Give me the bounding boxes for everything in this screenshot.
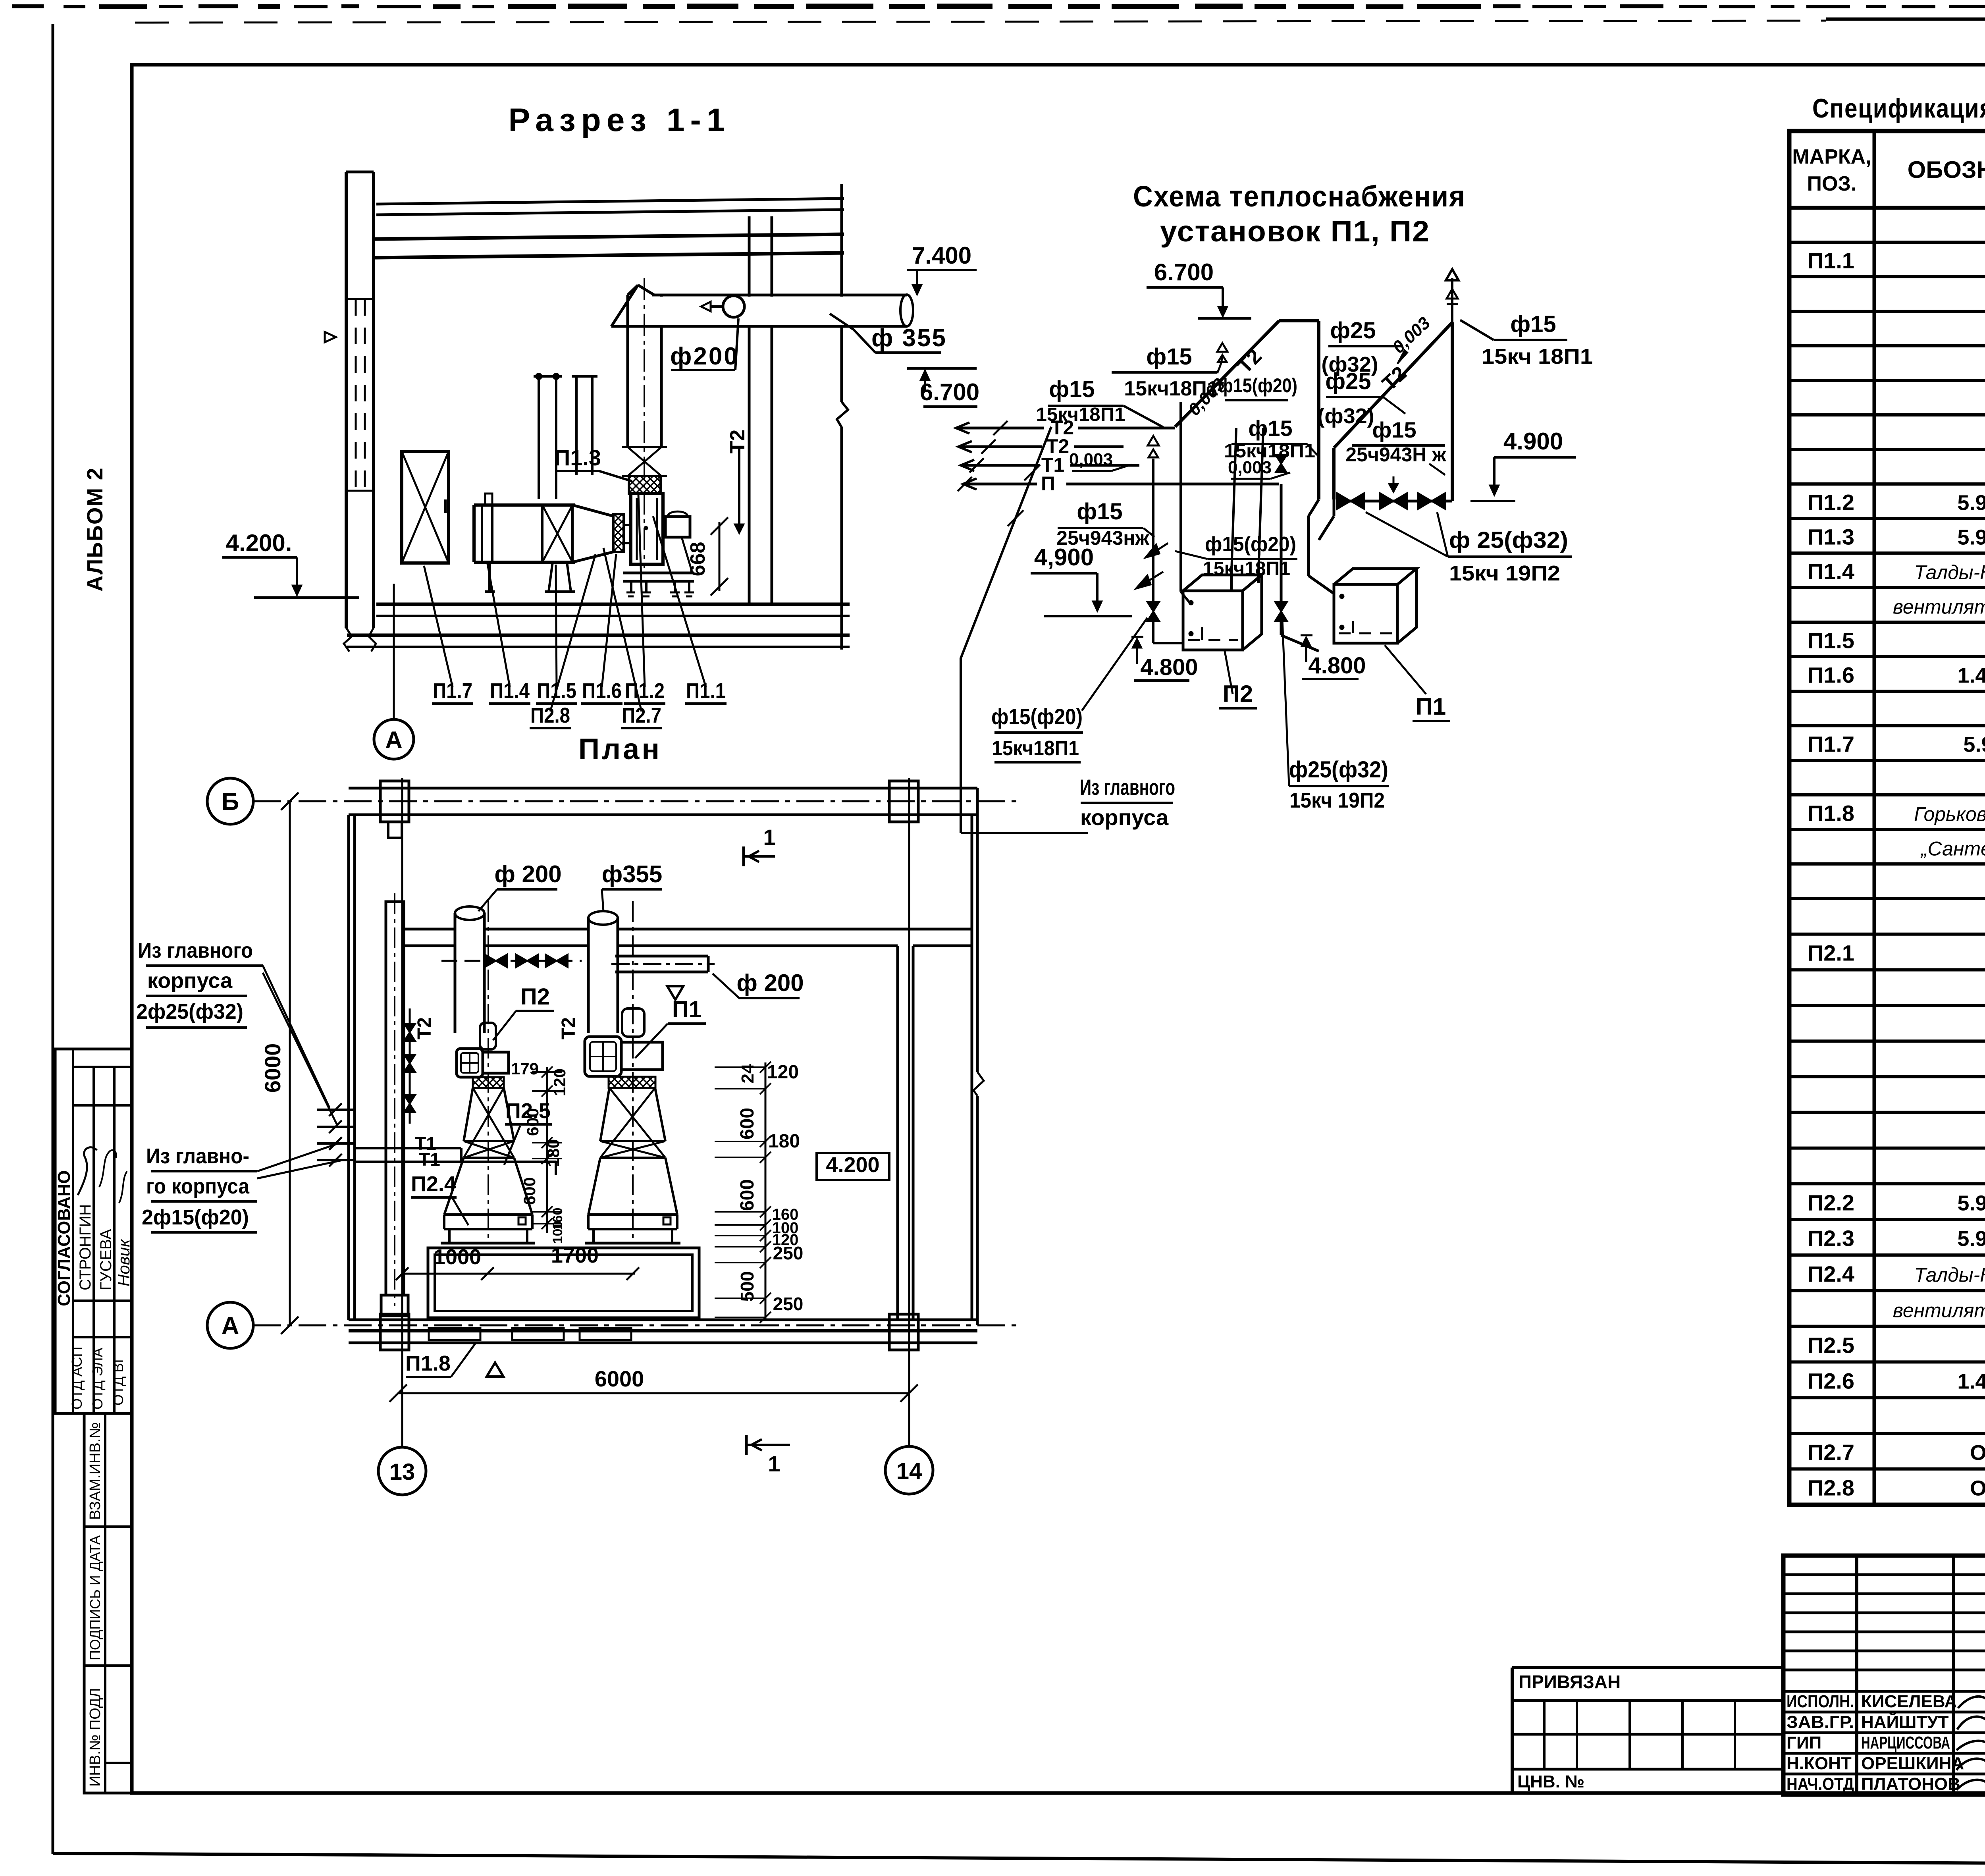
svg-text:15кч18П1: 15кч18П1	[992, 737, 1079, 760]
svg-text:100: 100	[550, 1221, 565, 1244]
elevation 6.700 (section)	[907, 367, 977, 370]
svg-text:П2.1: П2.1	[1808, 941, 1854, 966]
svg-text:П2: П2	[520, 984, 550, 1010]
svg-text:П1.8: П1.8	[1808, 801, 1854, 826]
fan unit П1: scroll plate	[621, 1042, 663, 1070]
svg-text:П1: П1	[672, 997, 701, 1022]
svg-text:0,003: 0,003	[1069, 450, 1113, 469]
fan unit П2: duct ф200	[455, 913, 484, 1033]
svg-text:НАРЦИССОВА: НАРЦИССОВА	[1861, 1733, 1950, 1753]
svg-text:ф 200: ф 200	[736, 970, 804, 996]
svg-text:6000: 6000	[595, 1366, 644, 1391]
pipe Т1	[961, 460, 974, 471]
fan unit П1: flex (hatched)	[609, 1077, 655, 1088]
louvre grilles П1.8 in bottom wall	[429, 1328, 480, 1340]
svg-text:П2.2: П2.2	[1808, 1190, 1854, 1215]
svg-text:1.494-25: 1.494-25	[1957, 664, 1985, 688]
valve on П2 feed	[1147, 602, 1159, 621]
svg-text:вентиляторный завод: вентиляторный завод	[1893, 1300, 1985, 1322]
svg-text:2ф15(ф20): 2ф15(ф20)	[142, 1205, 249, 1229]
svg-text:5.904-4: 5.904-4	[1963, 733, 1985, 757]
svg-text:Н.КОНТ: Н.КОНТ	[1786, 1754, 1852, 1773]
svg-text:13: 13	[389, 1459, 415, 1485]
svg-text:Т2: Т2	[726, 430, 749, 454]
air vent on right riser	[1451, 278, 1453, 322]
right riser	[1451, 322, 1454, 501]
svg-text:0,003: 0,003	[1228, 458, 1272, 477]
svg-text:Т2: Т2	[414, 1017, 435, 1039]
svg-text:ПОДПИСЬ И ДАТА: ПОДПИСЬ И ДАТА	[87, 1535, 103, 1660]
axis Б circle and line	[207, 778, 253, 824]
sheet outer border bottom edge	[53, 1853, 1985, 1866]
svg-text:250: 250	[773, 1243, 804, 1263]
axis 14 circle	[885, 1446, 933, 1494]
inner dim chain near П2	[546, 1067, 548, 1233]
sheet top edge: degraded dashed scan line	[12, 4, 44, 8]
fan motor	[665, 517, 690, 537]
dashed Т2 pipe with valves (plan)	[441, 960, 582, 962]
fan unit П1: cone lower	[588, 1158, 600, 1215]
svg-text:„Сантехдеталь": „Сантехдеталь"	[1920, 838, 1985, 860]
svg-text:15кч18П1: 15кч18П1	[1036, 404, 1125, 425]
fan unit П2: motor	[480, 1023, 496, 1049]
svg-text:корпуса: корпуса	[147, 969, 233, 993]
right big diagonal from air vent	[1334, 322, 1452, 448]
svg-text:П1.7: П1.7	[433, 679, 472, 703]
plan right wall with window	[971, 815, 973, 1320]
diamond valve on П riser	[1276, 455, 1287, 472]
svg-text:ф 200: ф 200	[494, 861, 561, 887]
svg-text:600: 600	[523, 1108, 542, 1136]
svg-text:П1.8: П1.8	[405, 1352, 451, 1375]
svg-text:Новик: Новик	[114, 1238, 133, 1286]
diagonal crossing left lines	[961, 427, 1051, 658]
schema: riser with air vent (left unit)	[1152, 459, 1154, 603]
fan unit П2: scroll plate	[472, 1052, 509, 1073]
svg-text:15кч18П1: 15кч18П1	[1124, 377, 1218, 400]
П1 box label	[1385, 645, 1426, 694]
valve row with 3 valves	[1337, 500, 1452, 503]
svg-text:4.800: 4.800	[1308, 653, 1366, 679]
svg-text:24: 24	[738, 1064, 757, 1083]
svg-text:Из главного: Из главного	[138, 939, 253, 962]
svg-text:6000: 6000	[260, 1043, 285, 1093]
svg-text:ОРЕШКИНА: ОРЕШКИНА	[1861, 1754, 1964, 1773]
svg-text:1: 1	[763, 825, 775, 850]
из главного корпуса (schema)	[960, 658, 962, 833]
fan unit П1: motor	[622, 1008, 644, 1037]
svg-text:МАРКА,: МАРКА,	[1792, 145, 1871, 168]
title block left grid horizontals (upper empty rows)	[1783, 1573, 1985, 1576]
svg-text:668: 668	[686, 542, 709, 576]
feeds into boxes	[1152, 618, 1154, 643]
svg-text:П2.6: П2.6	[1808, 1368, 1854, 1393]
pipe Т2	[958, 441, 972, 452]
svg-text:1: 1	[768, 1451, 780, 1476]
svg-text:КИСЕЛЕВА: КИСЕЛЕВА	[1861, 1692, 1957, 1711]
svg-text:ОТД ВГ: ОТД ВГ	[110, 1355, 126, 1406]
svg-text:ОВН2: ОВН2	[1970, 1477, 1985, 1500]
small air valve at end	[1217, 357, 1222, 373]
fan unit П1: X band	[600, 1140, 665, 1142]
fan unit П2: X band	[464, 1140, 514, 1142]
vertical pipe with valves (plan left)	[409, 1008, 411, 1124]
svg-text:АЛЬБОМ 2: АЛЬБОМ 2	[82, 467, 107, 592]
small slope arrows	[1146, 543, 1168, 557]
svg-text:6.700: 6.700	[1154, 259, 1214, 285]
left stamp box 2 (ИНВ/ПОДПИСЬ/ВЗАМ)	[84, 1413, 132, 1793]
svg-text:ПРИВЯЗАН: ПРИВЯЗАН	[1519, 1672, 1621, 1692]
svg-text:П1.3: П1.3	[1808, 524, 1854, 549]
fan unit П1: base	[588, 1213, 677, 1216]
svg-text:4.900: 4.900	[1503, 428, 1563, 455]
svg-text:ф25(ф32): ф25(ф32)	[1289, 757, 1388, 783]
svg-text:ГУСЕВА: ГУСЕВА	[97, 1229, 115, 1290]
svg-text:Т1: Т1	[419, 1149, 440, 1170]
duct X-brace section above fan	[622, 446, 667, 448]
svg-text:600: 600	[737, 1108, 758, 1139]
svg-text:5.904-38: 5.904-38	[1957, 526, 1985, 549]
label ф15(ф20)/15кч18П1 bottom left	[1082, 618, 1147, 711]
svg-text:ф15(ф20): ф15(ф20)	[991, 704, 1083, 729]
horizontal duct ф355	[651, 297, 905, 325]
svg-text:5.904-38: 5.904-38	[1957, 491, 1985, 515]
svg-text:П1: П1	[1416, 693, 1446, 720]
svg-text:ф25: ф25	[1330, 318, 1376, 343]
svg-text:П1.6: П1.6	[1808, 663, 1854, 688]
heater duct box (П1.5 калорифер)	[474, 503, 575, 507]
svg-text:А: А	[385, 727, 402, 753]
left extension ПРИВЯЗАН box	[1512, 1666, 1783, 1669]
svg-text:25ч943Н ж: 25ч943Н ж	[1345, 443, 1446, 466]
section mark 1 (bottom)	[745, 1435, 748, 1455]
signature squiggles	[78, 1147, 97, 1195]
svg-text:ИСПОЛН.: ИСПОЛН.	[1786, 1692, 1854, 1711]
sheet top frame line (right part solid)	[1826, 17, 1985, 21]
svg-text:600: 600	[520, 1177, 539, 1205]
svg-text:4.800: 4.800	[1140, 654, 1198, 680]
svg-text:180: 180	[544, 1139, 563, 1167]
interior dividing wall (plan)	[404, 928, 455, 931]
svg-text:Из главно-: Из главно-	[146, 1144, 249, 1168]
flow triangle	[667, 986, 683, 1000]
svg-text:7.400: 7.400	[912, 242, 971, 269]
svg-text:ВЗАМ.ИНВ.№: ВЗАМ.ИНВ.№	[87, 1422, 104, 1520]
supply pipes entering left wall	[317, 1109, 355, 1111]
schema: П2 risers	[1231, 428, 1236, 572]
calorifer box П2 (isometric)	[1183, 591, 1243, 650]
svg-text:Горьковский завод: Горьковский завод	[1914, 803, 1985, 825]
ventilation shaft column	[386, 902, 404, 1295]
svg-text:14: 14	[896, 1458, 922, 1484]
plan left wall	[347, 815, 350, 1320]
svg-text:ф200: ф200	[670, 343, 739, 370]
svg-text:НАЙШТУТ: НАЙШТУТ	[1861, 1712, 1949, 1732]
section: right inner column	[748, 216, 751, 604]
axis А circle and line	[207, 1302, 253, 1348]
svg-text:ф15: ф15	[1510, 311, 1556, 337]
svg-text:ОТД ЭЛА: ОТД ЭЛА	[89, 1348, 106, 1410]
svg-text:Т2: Т2	[558, 1017, 579, 1039]
svg-text:120: 120	[767, 1062, 799, 1083]
svg-text:5.904-38: 5.904-38	[1957, 1227, 1985, 1251]
svg-text:Схема теплоснабжения: Схема теплоснабжения	[1133, 180, 1466, 213]
svg-text:корпуса: корпуса	[1080, 805, 1169, 830]
fan unit П1: inlet box	[585, 1037, 621, 1076]
axis circle А (section)	[374, 719, 414, 759]
door П1.7 with X brace	[402, 451, 449, 563]
svg-text:ф25: ф25	[1325, 368, 1371, 394]
damper circle on duct	[723, 296, 744, 317]
fan П1.1 body	[631, 494, 663, 564]
svg-text:179: 179	[511, 1059, 539, 1078]
svg-text:Из главного: Из главного	[1080, 775, 1175, 800]
svg-text:П2.7: П2.7	[1808, 1440, 1854, 1465]
svg-text:15кч 19П2: 15кч 19П2	[1449, 561, 1560, 585]
svg-text:ПОЗ.: ПОЗ.	[1807, 172, 1857, 195]
svg-text:А: А	[222, 1312, 239, 1340]
svg-text:ОВН1: ОВН1	[1970, 1441, 1985, 1465]
svg-text:4.200: 4.200	[826, 1153, 879, 1177]
fan unit П2: cone upper	[464, 1088, 473, 1141]
section: left wall hidden window dashes	[355, 299, 357, 491]
svg-text:4,900: 4,900	[1034, 544, 1094, 571]
fan unit П2: inlet box	[457, 1049, 483, 1077]
transition cone П2.7	[572, 505, 613, 516]
signatures in title block	[1958, 1690, 1985, 1708]
vertical dim 6000 left	[289, 801, 291, 1325]
svg-text:П2.4: П2.4	[411, 1172, 456, 1196]
svg-text:П2.3: П2.3	[1808, 1226, 1854, 1251]
left stamp box 1 (СОГЛАСОВАНО) outline	[55, 1049, 132, 1413]
elevation 4.800 left	[1136, 641, 1138, 664]
filter X section П1.5	[541, 505, 543, 562]
svg-text:ЗАВ.ГР.: ЗАВ.ГР.	[1786, 1712, 1854, 1732]
base platform double rect	[428, 1248, 699, 1318]
small view direction triangle	[325, 332, 336, 342]
fan vertical duct ф200	[628, 295, 661, 447]
flexible insert П1.2 at fan inlet (hatched)	[629, 476, 661, 494]
svg-text:Талды-Курганский: Талды-Курганский	[1914, 1264, 1985, 1286]
svg-text:П1.3: П1.3	[554, 445, 601, 470]
svg-text:ф355: ф355	[602, 861, 663, 887]
Т1 pipes to units (plan)	[355, 1147, 461, 1149]
svg-text:5.904-38: 5.904-38	[1957, 1191, 1985, 1215]
svg-text:1.494-25: 1.494-25	[1957, 1369, 1985, 1393]
fan unit П1: cone upper	[600, 1088, 609, 1141]
pipe Т2	[956, 422, 969, 434]
svg-text:(ф32): (ф32)	[1317, 404, 1374, 428]
svg-text:СОГЛАСОВАНО: СОГЛАСОВАНО	[54, 1170, 74, 1306]
flexible insert П1.6 (hatched)	[613, 514, 624, 552]
fan unit П2: cone lower	[444, 1158, 464, 1215]
svg-text:П2.8: П2.8	[1808, 1475, 1854, 1500]
section: left wall column	[345, 172, 348, 628]
svg-text:1000: 1000	[434, 1245, 481, 1269]
svg-text:ф15: ф15	[1248, 416, 1292, 441]
title block left grid verticals	[1855, 1556, 1858, 1795]
hanger rods / pipe risers above heater	[534, 375, 562, 378]
svg-text:П1.7: П1.7	[1808, 732, 1854, 757]
svg-text:ф15: ф15	[1049, 376, 1095, 402]
svg-text:600: 600	[737, 1179, 758, 1211]
svg-text:го корпуса: го корпуса	[146, 1174, 250, 1198]
svg-text:ф 25(ф32): ф 25(ф32)	[1449, 527, 1568, 553]
spec table grid	[1789, 131, 1985, 1505]
svg-text:Разрез 1-1: Разрез 1-1	[509, 102, 730, 138]
duct elbow	[611, 285, 638, 326]
svg-text:П1.1: П1.1	[1808, 248, 1854, 273]
calorifer box П1 (isometric)	[1334, 584, 1397, 643]
svg-text:ЦНВ. №: ЦНВ. №	[1517, 1772, 1584, 1791]
plan top wall	[349, 787, 977, 790]
svg-text:ф15(ф20): ф15(ф20)	[1205, 533, 1296, 556]
svg-text:ГИП: ГИП	[1786, 1733, 1821, 1753]
vertical pipe х2974	[1179, 402, 1182, 592]
svg-text:180: 180	[768, 1131, 800, 1152]
section: right wall outer edge with break	[840, 184, 843, 402]
svg-text:П1.1: П1.1	[686, 679, 726, 703]
svg-text:ПЛАТОНОВ: ПЛАТОНОВ	[1861, 1774, 1960, 1794]
svg-text:П1.5: П1.5	[1808, 628, 1854, 653]
П2 box label	[1225, 651, 1233, 694]
svg-text:ИНВ.№ ПОДЛ: ИНВ.№ ПОДЛ	[87, 1688, 104, 1787]
intake valve П1.4	[481, 505, 483, 562]
svg-text:НАЧ.ОТД: НАЧ.ОТД	[1786, 1774, 1854, 1794]
svg-text:П2: П2	[1223, 681, 1253, 707]
vibration base	[623, 572, 694, 575]
pipe П	[963, 478, 977, 490]
axis 13 circle	[378, 1447, 426, 1495]
svg-text:Талды-Курганский: Талды-Курганский	[1914, 561, 1985, 584]
svg-text:ОБОЗНАЧЕНИЕ: ОБОЗНАЧЕНИЕ	[1908, 156, 1985, 183]
svg-text:6.700: 6.700	[920, 379, 979, 405]
svg-text:120: 120	[550, 1068, 569, 1096]
svg-text:П1.4: П1.4	[1808, 559, 1854, 584]
fan unit П1: duct ф355	[588, 918, 618, 1033]
stamp rows	[1783, 1690, 1985, 1693]
svg-text:План: План	[578, 733, 662, 765]
svg-text:15кч 18П1: 15кч 18П1	[1482, 345, 1593, 368]
title block outer	[1783, 1556, 1985, 1795]
right dim chain	[765, 1062, 767, 1320]
svg-text:250: 250	[773, 1294, 804, 1314]
svg-text:П: П	[1041, 472, 1055, 495]
svg-text:вентиляторный завод: вентиляторный завод	[1893, 596, 1985, 618]
section: ceiling slab lines	[376, 199, 844, 204]
svg-text:ОТД АСП: ОТД АСП	[69, 1347, 85, 1409]
svg-text:П2.5: П2.5	[1808, 1333, 1854, 1358]
interior partition wall along axis 14	[896, 946, 899, 1320]
svg-text:Б: Б	[222, 788, 239, 816]
elevation 4.800 right	[1305, 639, 1307, 662]
svg-text:ф15: ф15	[1372, 417, 1416, 442]
svg-text:СТРОНГИН: СТРОНГИН	[77, 1204, 94, 1290]
boxed elevation 4.200	[817, 1153, 889, 1180]
top horizontal and left drop riser	[1279, 319, 1319, 322]
big diagonal Т2 rising right	[1175, 321, 1279, 427]
fan unit П2: flex (hatched)	[473, 1077, 504, 1088]
svg-text:установок П1, П2: установок П1, П2	[1160, 215, 1430, 248]
section: left wall bottom break	[344, 628, 352, 652]
heater support legs	[488, 562, 491, 592]
svg-text:П2.8: П2.8	[530, 704, 570, 727]
svg-text:Спецификация отопительно- вен: Спецификация отопительно- вентиляционных…	[1812, 93, 1985, 123]
svg-text:ф15(ф20): ф15(ф20)	[1218, 374, 1297, 397]
section: floor slab lines	[376, 603, 850, 606]
svg-text:ф15: ф15	[1077, 499, 1122, 524]
svg-text:П2.4: П2.4	[1808, 1261, 1854, 1286]
small triangle marker	[487, 1363, 503, 1377]
branch duct ф200 right	[615, 955, 708, 958]
svg-text:15кч 19П2: 15кч 19П2	[1289, 789, 1385, 812]
svg-text:ф15: ф15	[1146, 344, 1192, 370]
svg-text:П1.2: П1.2	[1808, 490, 1854, 515]
svg-text:500: 500	[737, 1271, 757, 1302]
svg-text:4.200.: 4.200.	[226, 530, 292, 556]
sheet outer border left edge	[52, 24, 54, 1854]
svg-text:ф 355: ф 355	[871, 324, 947, 352]
fan unit П2: base	[444, 1213, 532, 1216]
plan bottom wall	[349, 1319, 977, 1321]
svg-text:1700: 1700	[551, 1244, 599, 1267]
svg-text:2ф25(ф32): 2ф25(ф32)	[136, 1000, 243, 1024]
section mark 1 (top)	[742, 846, 745, 866]
